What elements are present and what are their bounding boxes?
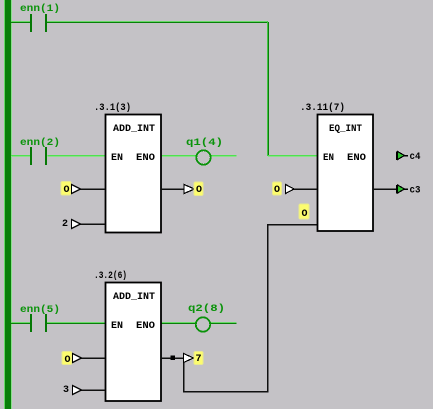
svg-text:enn(5): enn(5) xyxy=(20,304,60,316)
svg-text:.3.2(6): .3.2(6) xyxy=(94,270,127,282)
svg-text:O: O xyxy=(196,185,202,196)
svg-text:ENO: ENO xyxy=(136,153,155,164)
svg-text:EN: EN xyxy=(323,153,334,164)
svg-text:EN: EN xyxy=(111,321,123,332)
svg-text:O: O xyxy=(274,185,280,196)
svg-text:enn(2): enn(2) xyxy=(20,137,60,149)
svg-text:O: O xyxy=(65,355,71,366)
svg-text:3: 3 xyxy=(63,385,69,396)
svg-text:c3: c3 xyxy=(410,186,421,197)
svg-text:enn(1): enn(1) xyxy=(20,3,60,15)
svg-text:2: 2 xyxy=(62,219,68,230)
svg-text:c4: c4 xyxy=(410,152,421,163)
svg-text:EQ_INT: EQ_INT xyxy=(329,124,362,135)
svg-text:O: O xyxy=(64,185,70,196)
svg-text:q2(8): q2(8) xyxy=(188,303,225,315)
svg-text:O: O xyxy=(302,209,308,220)
svg-text:7: 7 xyxy=(196,354,202,365)
svg-text:.3.11(7): .3.11(7) xyxy=(300,102,345,114)
svg-text:ADD_INT: ADD_INT xyxy=(113,292,155,303)
svg-text:ENO: ENO xyxy=(347,153,366,164)
svg-text:ADD_INT: ADD_INT xyxy=(113,124,155,135)
svg-text:.3.1(3): .3.1(3) xyxy=(94,102,131,114)
svg-text:q1(4): q1(4) xyxy=(186,137,223,149)
svg-text:ENO: ENO xyxy=(136,321,155,332)
svg-text:EN: EN xyxy=(111,153,123,164)
